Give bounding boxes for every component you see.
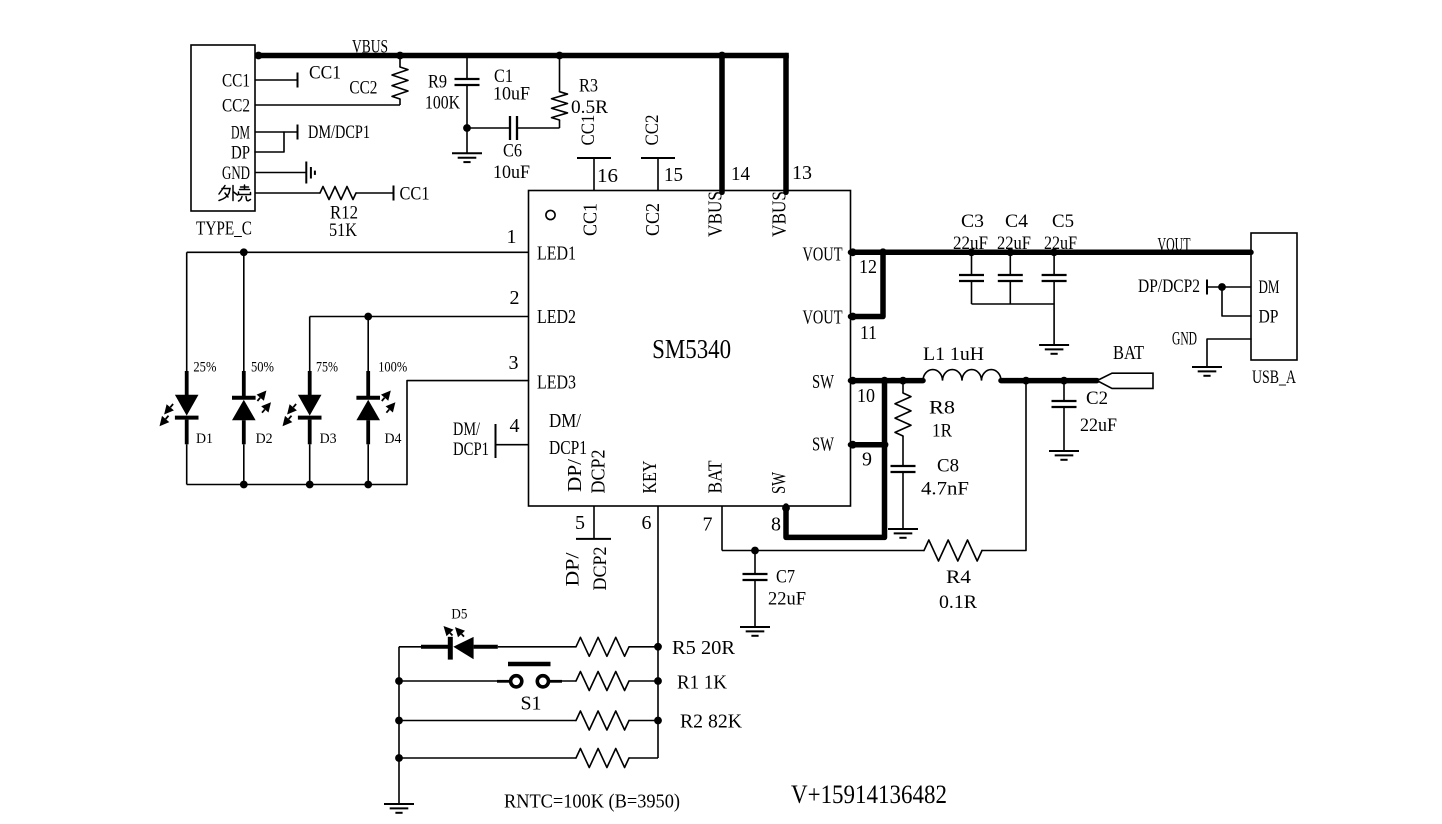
ground (C5) xyxy=(1039,344,1069,346)
svg-text:DM/DCP1: DM/DCP1 xyxy=(308,122,370,143)
LED D5 triangle xyxy=(453,637,473,659)
svg-text:DCP2: DCP2 xyxy=(588,450,610,494)
wire VOUT thick loop pin11 xyxy=(851,252,884,316)
junction rail/D3 xyxy=(306,481,314,489)
junction left/R2 xyxy=(395,717,403,725)
LED D3 light arrows xyxy=(293,404,296,407)
svg-text:22uF: 22uF xyxy=(997,233,1031,254)
svg-text:R5 20R: R5 20R xyxy=(672,637,736,659)
resistor R1 xyxy=(576,672,629,691)
wire LED2 net xyxy=(310,316,529,318)
wire D2 top lead xyxy=(243,252,245,371)
wire BAT thick xyxy=(1001,378,1097,384)
wire D2 bottom lead xyxy=(243,444,245,484)
wire C4 bottom lead xyxy=(1009,281,1011,304)
wire D3 top lead xyxy=(309,317,311,372)
resistor R9 xyxy=(392,67,408,99)
wire R4 to BAT xyxy=(982,381,1026,551)
svg-text:4.7nF: 4.7nF xyxy=(921,479,969,500)
capacitor C8 xyxy=(891,465,916,467)
junction KEY/R2 xyxy=(654,717,662,725)
svg-text:GND: GND xyxy=(1172,329,1197,350)
svg-text:DM: DM xyxy=(1259,277,1280,298)
capacitor C6 xyxy=(509,116,511,140)
wire D3 bottom lead xyxy=(309,444,311,484)
wire C4 top lead xyxy=(1009,252,1011,275)
wire C1 bottom lead xyxy=(466,85,468,128)
svg-text:DP/: DP/ xyxy=(563,552,584,587)
svg-text:LED3: LED3 xyxy=(537,372,576,394)
wire pin7 stub xyxy=(721,506,723,551)
wire R9 top lead xyxy=(399,56,401,68)
resistor R8 xyxy=(895,393,911,436)
wire C6 to R3 xyxy=(517,127,560,129)
pin-1 indicator circle xyxy=(546,210,555,219)
LED D5 right lead xyxy=(474,645,498,649)
wire R8 top lead xyxy=(902,381,904,393)
wire KEY pin6 vertical xyxy=(657,506,659,758)
junction SW loop top xyxy=(881,377,889,385)
wire left to R2 xyxy=(399,720,576,722)
svg-text:DM/: DM/ xyxy=(453,419,481,440)
junction C7 node xyxy=(751,547,759,555)
junction SW/R8 xyxy=(899,377,907,385)
terminal bar DP/DCP2 (USB) xyxy=(1206,280,1208,295)
wire C2 top lead xyxy=(1063,381,1065,401)
ground (C8) xyxy=(888,528,918,530)
svg-text:9: 9 xyxy=(862,448,872,470)
resistor R3 xyxy=(552,92,568,120)
svg-text:R2 82K: R2 82K xyxy=(680,710,743,732)
svg-text:8: 8 xyxy=(771,513,781,535)
svg-text:TYPE_C: TYPE_C xyxy=(196,217,252,239)
svg-text:D1: D1 xyxy=(196,431,213,447)
svg-text:SW: SW xyxy=(812,434,834,456)
wire C5 bottom lead xyxy=(1053,281,1055,304)
capacitor C5 xyxy=(1042,274,1067,276)
junction BAT/C2 xyxy=(1060,377,1068,385)
junction VBUS/R3 xyxy=(556,52,564,60)
wire C3 bottom lead xyxy=(971,281,973,304)
junction DP/DCP2 xyxy=(1218,283,1226,291)
svg-text:16: 16 xyxy=(597,165,618,187)
svg-text:LED1: LED1 xyxy=(537,243,576,265)
wire D4 bottom lead xyxy=(367,444,369,484)
LED D2 xyxy=(242,371,246,396)
wire R12 to terminal xyxy=(356,192,394,194)
switch S1 right contact xyxy=(537,676,548,687)
wire C5 top lead xyxy=(1053,252,1055,275)
wire R2 to KEY xyxy=(629,720,658,722)
connector J1 TYPE_C box xyxy=(191,45,255,211)
wire pin7 to R4 xyxy=(722,550,924,552)
inductor L1 xyxy=(923,370,1001,381)
junction KEY/R1 xyxy=(654,677,662,685)
svg-text:VBUS: VBUS xyxy=(769,191,791,237)
wire shell to R12 xyxy=(255,192,320,194)
capacitor C4 xyxy=(998,274,1023,276)
svg-text:13: 13 xyxy=(792,162,812,184)
junction rail/D4 xyxy=(364,481,372,489)
junction VBUS/pin14 xyxy=(718,52,726,60)
svg-text:VOUT: VOUT xyxy=(1158,235,1191,256)
resistor R5 xyxy=(576,637,629,656)
wire left to RNTC xyxy=(399,757,576,759)
svg-text:5: 5 xyxy=(575,512,585,534)
wire SW thick pin10 xyxy=(851,378,924,384)
switch S1 left contact xyxy=(511,676,522,687)
svg-text:1R: 1R xyxy=(932,421,952,442)
svg-text:25%: 25% xyxy=(193,360,216,376)
svg-text:D3: D3 xyxy=(320,431,337,447)
junction rail/D2 xyxy=(240,481,248,489)
svg-text:CC2: CC2 xyxy=(349,78,377,99)
svg-text:VBUS: VBUS xyxy=(352,37,388,58)
wire LED1 net xyxy=(187,251,529,253)
junction pin10 stub xyxy=(849,377,857,385)
wire cap common rail xyxy=(972,303,1055,305)
svg-text:CC1: CC1 xyxy=(309,63,341,84)
junction at TYPE_C VBUS xyxy=(255,52,263,60)
junction BAT/R4 xyxy=(1022,377,1030,385)
svg-text:L1 1uH: L1 1uH xyxy=(923,344,984,365)
svg-text:14: 14 xyxy=(731,163,750,185)
svg-text:51K: 51K xyxy=(329,220,357,241)
svg-text:2: 2 xyxy=(510,287,520,309)
svg-text:CC2: CC2 xyxy=(222,96,250,117)
svg-text:RNTC=100K (B=3950): RNTC=100K (B=3950) xyxy=(504,790,680,812)
svg-text:50%: 50% xyxy=(251,360,274,376)
svg-text:BAT: BAT xyxy=(705,461,727,494)
svg-text:0.1R: 0.1R xyxy=(939,592,977,613)
svg-text:3: 3 xyxy=(509,352,519,374)
wire LED3 net xyxy=(407,381,529,485)
wire D1 bottom lead xyxy=(186,444,188,484)
svg-text:SM5340: SM5340 xyxy=(652,334,731,364)
svg-text:SW: SW xyxy=(812,371,834,393)
svg-text:DCP1: DCP1 xyxy=(549,437,587,459)
resistor R12 xyxy=(320,187,356,200)
svg-text:R8: R8 xyxy=(929,398,955,419)
svg-text:DM: DM xyxy=(231,123,250,144)
wire R9 bottom lead xyxy=(399,99,401,105)
svg-text:10: 10 xyxy=(857,385,875,407)
junction VOUT/C4 xyxy=(1006,248,1014,256)
svg-text:C3: C3 xyxy=(961,211,984,232)
wire D5 to R5 xyxy=(498,646,576,648)
svg-text:R4: R4 xyxy=(946,567,972,588)
junction pin8 stub xyxy=(782,504,790,512)
LED D1 xyxy=(185,371,189,396)
svg-text:C8: C8 xyxy=(937,456,959,477)
junction left/RNTC xyxy=(395,754,403,762)
wire S1 to R1 xyxy=(549,680,576,682)
op-chip U1 SM5340 body xyxy=(529,191,851,507)
switch S1 actuator bar xyxy=(508,662,551,666)
svg-text:S1: S1 xyxy=(521,693,542,715)
svg-text:CC1: CC1 xyxy=(579,203,601,236)
svg-text:100%: 100% xyxy=(378,360,407,376)
svg-text:CC2: CC2 xyxy=(642,115,663,146)
terminal bar CC2 pin15 xyxy=(641,157,675,159)
svg-text:7: 7 xyxy=(703,513,713,535)
junction pin12 stub xyxy=(849,248,857,256)
svg-text:DCP2: DCP2 xyxy=(590,547,611,591)
wire C2 to ground xyxy=(1063,407,1065,451)
junction pin11 stub xyxy=(849,313,857,321)
wire DP/DCP2 to DM xyxy=(1207,286,1251,288)
ground (USB) xyxy=(1192,366,1222,368)
svg-text:SW: SW xyxy=(768,472,790,494)
svg-text:DP/: DP/ xyxy=(564,459,586,492)
svg-text:DP: DP xyxy=(231,143,250,164)
wire VOUT thick pin12 xyxy=(851,250,1252,256)
LED D5 left lead xyxy=(421,645,449,649)
wire C7 to ground xyxy=(754,580,756,627)
wire GND stub xyxy=(255,172,306,174)
svg-text:15: 15 xyxy=(664,164,683,186)
wire DM stub xyxy=(255,131,298,133)
wire node to C6 xyxy=(467,127,510,129)
svg-text:CC2: CC2 xyxy=(642,203,664,236)
svg-text:1: 1 xyxy=(507,226,517,248)
resistor RNTC xyxy=(576,749,629,768)
terminal bar CC1 xyxy=(297,73,299,88)
terminal bar CC1 pin16 xyxy=(577,157,611,159)
ground (C2) xyxy=(1049,450,1079,452)
switch S1 left lead xyxy=(497,680,510,683)
wire C1 top lead xyxy=(466,56,468,80)
svg-text:R1 1K: R1 1K xyxy=(677,671,728,693)
wire D4 top lead xyxy=(367,317,369,372)
svg-text:VBUS: VBUS xyxy=(705,191,727,237)
junction VBUS/R9 xyxy=(396,52,404,60)
svg-text:CC1: CC1 xyxy=(578,115,599,146)
junction VOUT/loop xyxy=(879,248,887,256)
terminal bar DM/DCP1 (pin4) xyxy=(495,424,497,458)
wire R5 to KEY xyxy=(629,646,658,648)
capacitor C7 xyxy=(743,573,768,575)
junction pin9 stub xyxy=(849,441,857,449)
svg-text:22uF: 22uF xyxy=(768,589,806,610)
terminal bar CC1 (R12) xyxy=(393,186,395,201)
wire DP stub xyxy=(255,132,284,152)
wire rail to ground xyxy=(1053,304,1055,345)
svg-text:C4: C4 xyxy=(1005,211,1029,232)
junction SW loop pin9 xyxy=(881,441,889,449)
wire pin5 stem xyxy=(593,506,595,539)
wire R1 to KEY xyxy=(629,680,658,682)
svg-text:D5: D5 xyxy=(451,607,467,623)
svg-text:LED2: LED2 xyxy=(537,306,576,328)
svg-text:DM/: DM/ xyxy=(549,410,581,432)
wire VBUS to pin 14 xyxy=(719,56,725,193)
wire pin4 stub xyxy=(496,444,529,446)
net VBUS thick rail xyxy=(255,53,789,59)
wire C7 top lead xyxy=(754,551,756,575)
LED D3 xyxy=(308,371,312,396)
LED D5 light arrows xyxy=(450,633,453,636)
svg-text:22uF: 22uF xyxy=(1044,233,1077,254)
svg-text:12: 12 xyxy=(859,256,877,278)
terminal bar DM/DCP1 xyxy=(297,125,299,140)
svg-text:BAT: BAT xyxy=(1113,342,1144,364)
wire pin16 stem xyxy=(593,158,595,191)
wire left to S1 xyxy=(399,680,510,682)
svg-text:11: 11 xyxy=(860,322,877,344)
junction VOUT/C3 xyxy=(968,248,976,256)
ground (C1) xyxy=(452,152,482,154)
svg-text:C6: C6 xyxy=(503,141,522,162)
wire CC2 net xyxy=(255,104,400,106)
svg-text:C2: C2 xyxy=(1086,388,1108,409)
svg-text:4: 4 xyxy=(510,415,520,437)
svg-text:VOUT: VOUT xyxy=(803,244,843,266)
svg-text:10uF: 10uF xyxy=(493,84,530,105)
LED D4 light arrows xyxy=(382,398,385,401)
svg-text:V+15914136482: V+15914136482 xyxy=(791,780,947,809)
capacitor C3 xyxy=(959,274,984,276)
svg-text:CC1: CC1 xyxy=(222,71,250,92)
svg-text:DP/DCP2: DP/DCP2 xyxy=(1138,276,1200,297)
svg-text:CC1: CC1 xyxy=(400,184,430,205)
junction LED2/D4 xyxy=(364,313,372,321)
wire D1 top lead xyxy=(186,252,188,371)
pin label shell CJK (TYPE_C) xyxy=(219,185,251,201)
svg-text:22uF: 22uF xyxy=(953,233,988,254)
net flag BAT xyxy=(1097,373,1153,388)
wire node to ground xyxy=(466,128,468,153)
ground (KEY bus) xyxy=(384,803,414,805)
wire left bus vertical xyxy=(398,647,400,804)
ground (C7) xyxy=(740,626,770,628)
svg-text:DP: DP xyxy=(1259,307,1279,328)
connector USB_A box xyxy=(1251,233,1297,360)
svg-text:6: 6 xyxy=(642,512,652,534)
wire GND (USB) xyxy=(1207,339,1251,367)
svg-text:KEY: KEY xyxy=(639,461,661,494)
svg-text:USB_A: USB_A xyxy=(1252,367,1296,388)
LED D4 xyxy=(366,371,370,396)
svg-text:DCP1: DCP1 xyxy=(453,439,489,460)
wire DP/DCP2 to DP xyxy=(1222,287,1251,316)
wire SW thick loop pin9 pin8 xyxy=(851,442,885,448)
junction LED1/D2 xyxy=(240,248,248,256)
svg-text:100K: 100K xyxy=(425,93,460,114)
wire C3 top lead xyxy=(971,252,973,275)
wire LED bottom rail xyxy=(187,484,407,486)
junction KEY/R5 xyxy=(654,643,662,651)
wire C8 to ground xyxy=(902,472,904,529)
svg-text:10uF: 10uF xyxy=(493,162,530,183)
terminal bar DP/DCP2 (pin5) xyxy=(576,538,611,540)
junction VOUT/C5 xyxy=(1050,248,1058,256)
resistor R2 xyxy=(576,711,629,730)
LED D2 light arrows xyxy=(257,398,260,401)
capacitor C2 xyxy=(1052,400,1077,402)
junction left/R1 xyxy=(395,677,403,685)
svg-text:C5: C5 xyxy=(1052,211,1074,232)
wire R8 to C8 xyxy=(902,436,904,466)
svg-text:D4: D4 xyxy=(385,431,402,447)
capacitor C1 xyxy=(455,78,480,80)
wire R3 top lead xyxy=(559,56,561,92)
LED D5 cathode bar xyxy=(448,637,453,660)
wire VBUS to pin 13 xyxy=(783,56,789,193)
svg-text:22uF: 22uF xyxy=(1080,415,1117,436)
junction C1/C6 node xyxy=(463,124,471,132)
wire left to D5 xyxy=(399,646,421,648)
switch S1 right lead xyxy=(549,680,562,683)
svg-text:R3: R3 xyxy=(579,76,598,97)
ground sideways (TYPE_C GND) xyxy=(305,162,307,184)
wire R3 bottom lead xyxy=(559,120,561,128)
wire RNTC to KEY xyxy=(629,757,658,759)
svg-text:VOUT: VOUT xyxy=(803,307,843,329)
LED D1 light arrows xyxy=(170,404,173,407)
svg-text:R9: R9 xyxy=(428,72,447,93)
svg-text:C7: C7 xyxy=(776,567,795,588)
svg-text:D2: D2 xyxy=(256,431,273,447)
resistor R4 xyxy=(924,540,982,561)
wire CC1 stub xyxy=(255,79,298,81)
wire pin15 stem xyxy=(657,158,659,191)
svg-text:GND: GND xyxy=(222,163,250,184)
svg-text:75%: 75% xyxy=(316,360,338,376)
